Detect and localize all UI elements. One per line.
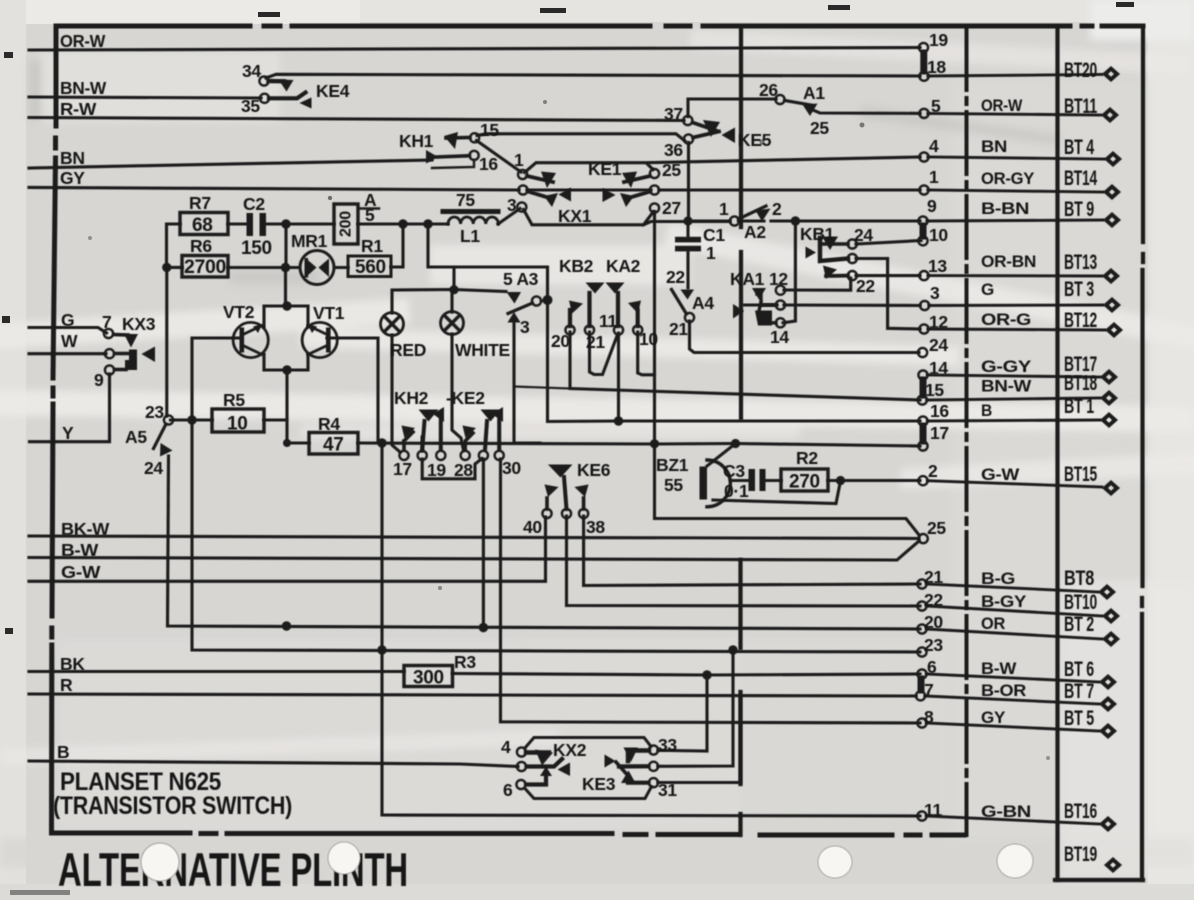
svg-text:KX3: KX3 [122, 314, 156, 334]
svg-text:17: 17 [930, 423, 949, 443]
svg-text:35: 35 [241, 96, 260, 116]
svg-text:25: 25 [927, 518, 946, 538]
svg-text:75: 75 [456, 190, 475, 210]
wire GY row through KX1/KE1 to terminal 1 [29, 187, 920, 190]
wires group placeholder [29, 48, 1105, 825]
svg-text:R1: R1 [361, 236, 383, 256]
svg-text:10: 10 [639, 329, 658, 349]
svg-text:L1: L1 [460, 226, 480, 246]
svg-text:38: 38 [586, 517, 605, 537]
svg-text:A2: A2 [744, 222, 766, 242]
svg-text:-KE2: -KE2 [446, 388, 485, 408]
svg-text:6: 6 [503, 780, 513, 800]
contact KB1 [806, 237, 857, 281]
svg-text:11: 11 [599, 311, 617, 331]
contact A4 [672, 290, 695, 323]
wire R-W row to KE5 terminal 37 [29, 118, 684, 121]
node 24 [918, 348, 927, 357]
svg-text:150: 150 [241, 238, 272, 259]
wires from terminals to BT diamonds [925, 75, 1105, 825]
svg-text:KE6: KE6 [577, 460, 611, 480]
node 8 [917, 718, 926, 727]
svg-text:22: 22 [666, 267, 685, 287]
svg-text:17: 17 [393, 459, 412, 479]
svg-text:BT11: BT11 [1064, 95, 1097, 118]
node 17 [918, 441, 927, 450]
svg-text:OR-BN: OR-BN [981, 252, 1036, 271]
wire KE2 30 down to row722 terminal 8 [501, 459, 921, 723]
svg-text:A5: A5 [125, 427, 147, 447]
svg-text:WHITE: WHITE [455, 340, 510, 360]
svg-text:21: 21 [924, 567, 943, 587]
wire R6 MR1 R1 row y267 [167, 266, 349, 269]
svg-text:12: 12 [769, 269, 788, 289]
node 3 [920, 301, 929, 310]
wire WHITE lamp down to KE2 [452, 334, 464, 450]
svg-text:KE3: KE3 [582, 774, 616, 794]
svg-text:14: 14 [929, 358, 948, 378]
svg-text:12: 12 [929, 312, 948, 332]
wire R4 row left [287, 441, 309, 444]
svg-text:B-BN: B-BN [981, 199, 1029, 218]
svg-text:OR-W: OR-W [60, 31, 106, 51]
KX2 top bridge 4-33 [525, 738, 652, 749]
svg-text:RED: RED [390, 340, 426, 360]
wire L1 to KX1 3 [498, 209, 520, 225]
wire row421 to terminal 16 [618, 419, 920, 422]
node 23 [917, 647, 926, 656]
svg-text:560: 560 [355, 257, 386, 278]
svg-text:18: 18 [927, 57, 946, 77]
svg-text:5: 5 [931, 96, 941, 116]
contact KE6 [542, 465, 588, 519]
wire KA1 mid to terminal 3 [784, 303, 920, 307]
svg-text:BN: BN [981, 137, 1007, 156]
lamp WHITE [441, 312, 464, 335]
svg-text:B-GY: B-GY [981, 592, 1027, 611]
terminal circles right column [916, 43, 929, 821]
wire VT2 base lead left and down to R5 [192, 338, 240, 420]
svg-text:R3: R3 [454, 652, 476, 672]
wire KB1 24 to terminal 10 [856, 241, 921, 245]
svg-text:MR1: MR1 [291, 231, 328, 251]
svg-text:28: 28 [454, 460, 473, 480]
svg-text:BT19: BT19 [1064, 843, 1097, 866]
wire jog row224 to A3 pivot [428, 224, 548, 298]
node 21 [917, 579, 926, 588]
strap 16-17 [920, 426, 927, 441]
svg-text:BT8: BT8 [1064, 567, 1094, 590]
resistor R7 [180, 213, 228, 235]
wire KB2 20 down to row397 terminal 15 [570, 332, 920, 400]
boundary bus x=741 dash-dot [738, 27, 743, 835]
wire KE1 top bridge 1-25 and on to terminal 4 [525, 157, 921, 173]
wire KE6 38 to terminal 21 [584, 516, 920, 586]
punch hole 1 [141, 843, 179, 881]
boundary bus x=966 dash-dot [965, 28, 969, 835]
svg-text:KA1: KA1 [730, 269, 765, 289]
svg-text:24: 24 [144, 458, 163, 478]
wire KH1 15 to KX1 1 diagonal [477, 141, 522, 173]
wire R2 node to terminal 2 [828, 479, 920, 482]
svg-text:BZ1: BZ1 [656, 455, 689, 475]
wire A4 21 down to row352 terminal 24 [690, 321, 920, 353]
svg-text:BT 5: BT 5 [1064, 707, 1094, 730]
wire BN row to KH1 break contact [29, 160, 432, 168]
contact KA1 [733, 286, 785, 328]
contact KH2 [399, 407, 445, 460]
svg-text:2: 2 [928, 461, 938, 481]
node 22 [917, 601, 926, 610]
svg-text:23: 23 [924, 635, 943, 655]
svg-text:B-W: B-W [981, 659, 1017, 678]
inductor L1 [443, 209, 498, 214]
svg-text:B-G: B-G [981, 569, 1015, 588]
wire KH2 19 riser [421, 437, 424, 451]
svg-text:G-W: G-W [61, 562, 101, 582]
svg-text:2700: 2700 [184, 257, 226, 278]
svg-text:16: 16 [930, 401, 949, 421]
svg-text:10: 10 [929, 225, 948, 245]
svg-text:22: 22 [924, 590, 943, 610]
svg-text:300: 300 [413, 668, 444, 689]
svg-text:G: G [981, 280, 994, 299]
contact A1 [775, 95, 817, 116]
BT box top/bottom [1055, 878, 1143, 882]
svg-text:OR-GY: OR-GY [981, 169, 1035, 188]
wire R1 hook to row224 [391, 224, 403, 267]
svg-text:25: 25 [810, 118, 829, 138]
contact A3 [507, 292, 546, 323]
contact KX1 [517, 170, 571, 212]
wire A3 pivot down to row421 [548, 302, 619, 422]
wire RED lamp riser [392, 335, 400, 452]
wire VT1 lead right and down to R4 right [327, 338, 378, 432]
KE3 arms [605, 755, 616, 768]
svg-text:(TRANSISTOR SWITCH): (TRANSISTOR SWITCH) [53, 792, 292, 820]
svg-text:24: 24 [854, 225, 873, 245]
resistor R5 [212, 409, 264, 432]
wire OR-W row to terminal 19 [29, 48, 920, 51]
svg-text:Y: Y [62, 423, 74, 443]
node 4 [919, 152, 928, 161]
wire KE4 34 to terminal 18 [266, 74, 920, 78]
svg-text:KA2: KA2 [606, 256, 641, 276]
svg-text:BT 7: BT 7 [1064, 680, 1094, 703]
capacitor C3 [749, 469, 766, 491]
strap 14-15 [920, 380, 927, 395]
wire VT collector bracket [264, 306, 308, 327]
punch hole 4 [997, 844, 1033, 878]
wire KX1 bottom bridge 3-27 and on to node C1 [524, 210, 731, 225]
node 5 [919, 109, 928, 118]
fuse A/5 box 200 [334, 204, 358, 244]
svg-text:GY: GY [981, 708, 1006, 727]
lamp RED [381, 313, 404, 336]
svg-text:GY: GY [60, 168, 85, 188]
svg-text:8: 8 [924, 707, 934, 727]
rectifier MR1 [300, 251, 334, 285]
svg-text:68: 68 [192, 215, 213, 236]
svg-text:11: 11 [924, 800, 942, 820]
svg-text:200: 200 [338, 211, 355, 237]
svg-text:36: 36 [664, 140, 683, 160]
svg-text:BT 6: BT 6 [1064, 658, 1094, 681]
wire KH2 19-28 U bracket [422, 459, 482, 479]
punch hole 3 [818, 846, 852, 878]
wire A5 node down to row650 [192, 420, 920, 652]
wire A2 1 lead [688, 219, 730, 222]
svg-text:30: 30 [502, 458, 521, 478]
svg-text:BT14: BT14 [1064, 167, 1097, 190]
svg-text:10: 10 [227, 414, 248, 435]
transistor VT2 [233, 322, 268, 357]
svg-text:34: 34 [242, 61, 261, 81]
wire BZ1 to C3 [731, 479, 748, 482]
resistor R1 [348, 256, 391, 277]
svg-text:W: W [61, 331, 78, 351]
svg-text:R4: R4 [318, 414, 340, 434]
wire A3 break contact down to R4 row [514, 323, 540, 443]
svg-text:3: 3 [930, 283, 940, 303]
wire KX3 W row [29, 352, 106, 355]
svg-text:BT16: BT16 [1064, 800, 1097, 823]
wire A1 make contact to terminal 5 [813, 110, 920, 113]
wire R4 right vertical junction [376, 432, 379, 443]
wire BK-W row to point 25 [29, 536, 919, 539]
resistor R3 [404, 666, 453, 687]
wire C2 node down to MR1 row [284, 224, 287, 268]
wire KA2 11 down to row421 [617, 333, 620, 421]
node 11 [917, 811, 926, 820]
wire C1 node down to plates and A4 [686, 221, 689, 288]
svg-text:C2: C2 [243, 194, 265, 214]
wire VT emitter bracket [264, 354, 308, 370]
svg-text:9: 9 [94, 370, 104, 390]
border frame dash-dot top [56, 24, 1143, 29]
svg-text:1: 1 [514, 150, 524, 170]
svg-text:BT12: BT12 [1064, 309, 1097, 332]
node 1 [919, 185, 928, 194]
wire KX3 9 down to Y row [30, 374, 110, 442]
wire A5 24 contact down to row626 [168, 456, 921, 629]
wire C2/L1 row y224 [170, 222, 448, 225]
wire BZ1 top tap [707, 444, 736, 467]
node 14 [918, 370, 927, 379]
svg-text:1: 1 [706, 243, 716, 263]
contact KE5 [683, 116, 735, 144]
svg-text:33: 33 [658, 735, 677, 755]
node 9 [918, 216, 927, 225]
contact KH1 [426, 132, 479, 168]
wire KE3 31 to R row riser [658, 695, 741, 783]
wire KE1 27 vertical down to point 25 loop [655, 212, 920, 536]
contact KA2 [606, 283, 643, 335]
resistor R4 [309, 433, 358, 455]
svg-text:21: 21 [669, 319, 688, 339]
svg-text:G-W: G-W [981, 465, 1020, 484]
wire KA1 mid left stub to A4 contact [744, 303, 777, 306]
svg-text:B-W: B-W [61, 540, 99, 560]
svg-text:55: 55 [664, 475, 683, 495]
KE3 bottom bridge 6-31 [525, 787, 652, 799]
svg-text:BT 9: BT 9 [1064, 198, 1094, 221]
resistor R2 [781, 469, 828, 491]
node 13 [919, 271, 928, 280]
svg-text:R7: R7 [189, 193, 211, 213]
svg-text:13: 13 [928, 256, 947, 276]
contact KB2 [565, 283, 604, 335]
wire C3 to R2 [766, 479, 781, 482]
contact KX3 [104, 329, 155, 375]
transistor VT1 [302, 322, 337, 357]
svg-text:19: 19 [427, 460, 446, 480]
wire BZ1 bottom to R2 node [713, 481, 841, 504]
BT box left edge [1055, 26, 1059, 880]
contact KE2 [461, 407, 504, 460]
contact KE1 [603, 169, 660, 213]
svg-text:BN-W: BN-W [981, 377, 1032, 396]
svg-text:5 A3: 5 A3 [503, 269, 539, 289]
svg-text:20: 20 [551, 331, 570, 351]
svg-text:KB1: KB1 [800, 224, 835, 244]
capacitor C2 [247, 213, 267, 236]
svg-text:0·1: 0·1 [724, 481, 749, 501]
svg-text:B-OR: B-OR [981, 681, 1026, 700]
node 7 [916, 691, 925, 700]
wire B row to KX2 mid-left [29, 761, 518, 767]
wire KE6 mid to terminal 22 [567, 516, 921, 606]
node 16 [918, 416, 927, 425]
BT terminal diamonds [1098, 66, 1123, 873]
svg-text:BT20: BT20 [1064, 59, 1097, 82]
wire KX2 33 riser to R3 row [658, 675, 707, 751]
svg-text:1: 1 [929, 167, 939, 187]
svg-text:19: 19 [929, 30, 948, 50]
svg-text:KH2: KH2 [394, 388, 429, 408]
svg-text:270: 270 [789, 472, 820, 493]
wire R7 left loop [167, 224, 181, 267]
svg-text:R: R [60, 675, 73, 695]
svg-text:7: 7 [924, 680, 933, 700]
svg-text:BT 4: BT 4 [1064, 136, 1094, 159]
svg-text:KX1: KX1 [558, 206, 592, 226]
punch hole 2 [328, 842, 360, 874]
svg-text:16: 16 [479, 154, 498, 174]
svg-text:21: 21 [586, 332, 605, 352]
wire KA2 10 hook to 27 vertical [638, 332, 655, 375]
wire KE2 mid down to row626 [482, 459, 485, 628]
svg-text:BT18: BT18 [1064, 372, 1097, 395]
svg-text:1: 1 [719, 199, 729, 219]
svg-text:9: 9 [927, 196, 937, 216]
svg-text:C1: C1 [703, 225, 725, 245]
svg-text:OR: OR [981, 614, 1005, 633]
svg-text:A1: A1 [803, 83, 825, 103]
svg-text:KE5: KE5 [738, 130, 772, 150]
svg-text:KE1: KE1 [588, 159, 622, 179]
svg-text:31: 31 [658, 780, 677, 800]
wire KB2 21 KA2 11 U loop [590, 332, 618, 375]
strap 19-18 [920, 53, 927, 71]
node 18 [919, 72, 928, 81]
svg-text:24: 24 [929, 335, 948, 355]
wire KB1 mid z-path to terminal 12 [856, 259, 920, 330]
svg-text:BT15: BT15 [1064, 463, 1097, 486]
svg-text:37: 37 [664, 104, 683, 124]
svg-text:VT2: VT2 [223, 302, 255, 322]
svg-text:BT13: BT13 [1064, 251, 1097, 274]
svg-text:25: 25 [662, 160, 681, 180]
wire BN-W row to KE4 contact 35 [29, 97, 261, 98]
node 20 [917, 624, 926, 633]
svg-text:3: 3 [507, 195, 517, 215]
wire KA1 12 link up to KB1 22 node [784, 278, 851, 290]
node 12 [919, 324, 928, 333]
node 6 [917, 669, 926, 678]
node 2 [918, 476, 927, 485]
svg-text:4: 4 [501, 737, 511, 757]
node 15 [918, 395, 927, 404]
wire R5 row [171, 418, 288, 421]
svg-text:KH1: KH1 [399, 131, 434, 151]
svg-text:BN-W: BN-W [60, 78, 107, 98]
BT box right edge [1142, 26, 1143, 880]
wire MR1 node down to VT collector bracket [284, 268, 287, 307]
svg-text:G-GY: G-GY [981, 357, 1032, 376]
KX2 arms [526, 750, 549, 754]
wire A5 23 to R5 row [172, 418, 212, 421]
border frame left [52, 26, 57, 833]
svg-text:2: 2 [772, 199, 782, 219]
wire KB1 22 node to terminal 13 [856, 274, 920, 277]
svg-text:KX2: KX2 [553, 740, 587, 760]
svg-text:OR-W: OR-W [981, 96, 1023, 115]
wire R row to terminal 7 [29, 694, 916, 696]
contact A5 [154, 415, 174, 456]
wire lamp top row y290 [392, 290, 506, 314]
wire KH1 15 to KE5 36 [477, 134, 685, 141]
svg-text:BT10: BT10 [1064, 591, 1097, 614]
svg-text:BN: BN [60, 148, 85, 168]
wire colour codes column [981, 96, 1036, 821]
wire row650 to KX2 block riser [658, 650, 733, 766]
svg-text:VT1: VT1 [313, 303, 345, 323]
svg-text:6: 6 [927, 657, 937, 677]
wire VT bracket center to R4 row [285, 370, 288, 443]
svg-text:KB2: KB2 [559, 256, 594, 276]
svg-text:R-W: R-W [60, 99, 97, 119]
border frame bottom dash-dot [52, 833, 965, 835]
wire B-W row to point 25 [29, 541, 919, 560]
wire A2 2 down to KA1 14 [783, 221, 795, 323]
capacitor C1 [675, 237, 701, 252]
contact KX2 KE3 block [516, 738, 658, 799]
svg-text:OR-G: OR-G [981, 310, 1031, 329]
svg-text:14: 14 [770, 327, 789, 347]
svg-text:G: G [61, 310, 74, 330]
wire row397 left stub [514, 387, 570, 389]
svg-text:R2: R2 [796, 448, 818, 468]
svg-text:C3: C3 [723, 461, 745, 481]
svg-text:15: 15 [925, 380, 944, 400]
svg-text:3: 3 [520, 317, 530, 337]
resistor R6 [182, 256, 228, 278]
contact KE4 [259, 76, 311, 108]
svg-text:47: 47 [323, 435, 344, 456]
svg-text:7: 7 [102, 312, 111, 332]
wire R4 node down to row650 and row815 [382, 443, 920, 816]
